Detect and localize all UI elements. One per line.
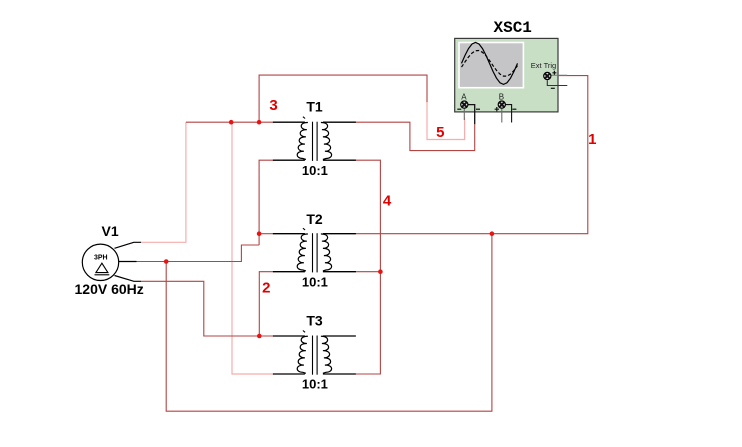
junction at V1 phase B and bottom rail branch [164, 259, 169, 264]
wire net 3: horizontal into T1 primary top pin [186, 121, 274, 123]
svg-text:T3: T3 [306, 313, 323, 329]
svg-text:10:1: 10:1 [302, 377, 328, 392]
wire net 1: V1 phase B down, bottom rail, up to T2 secondary top row [166, 234, 492, 412]
svg-text:T1: T1 [306, 99, 323, 115]
terminal B right stub [506, 105, 512, 123]
wire: T1 primary bottom down to T2 primary top [259, 160, 273, 245]
source V1 delta symbol [96, 263, 108, 272]
svg-text:5: 5 [436, 124, 444, 141]
scope screen frame [458, 42, 524, 89]
sine wave trace channel A [462, 42, 518, 84]
svg-text:T2: T2 [306, 211, 323, 227]
source V1 pin phase B [119, 261, 137, 263]
svg-text:B: B [499, 93, 504, 102]
terminal B [498, 101, 505, 108]
scope screen [460, 43, 523, 87]
svg-text:2: 2 [262, 280, 270, 297]
svg-text:10:1: 10:1 [302, 274, 328, 289]
svg-text:4: 4 [383, 193, 392, 210]
junction on net 4 at T2 secondary bottom [378, 269, 383, 274]
wire net 5: T1 secondary top to scope channel A minus [356, 122, 475, 150]
sign Ext Trig minus [551, 87, 555, 89]
source V1 delta underline [95, 274, 110, 276]
sign A right minus [476, 108, 480, 110]
svg-text:1: 1 [588, 131, 596, 148]
transformer T3 [273, 331, 356, 375]
oscilloscope XSC1 [455, 38, 568, 124]
svg-text:Ext Trig: Ext Trig [531, 61, 556, 70]
wire net 2: T3 primary top up to T2 primary bottom pin [259, 272, 273, 336]
sign A left minus [457, 108, 461, 110]
terminal A right stub [468, 105, 475, 125]
svg-text:120V 60Hz: 120V 60Hz [75, 281, 144, 297]
sign B plus [495, 107, 499, 111]
svg-text:10:1: 10:1 [302, 163, 328, 178]
source V1 pin phase A [115, 242, 142, 248]
sign Ext Trig plus [552, 71, 556, 75]
wire net 3: V1 phase A terminal right then up [141, 122, 186, 242]
junction on net 3 at T1 primary top and long vertical [229, 120, 234, 125]
svg-text:3PH: 3PH [94, 254, 108, 261]
junction on net 3 at T1 primary top and scope branch [257, 120, 262, 125]
terminal Ext Trig [544, 72, 551, 79]
wire net 3: down and right into scope channel A plus [427, 102, 465, 140]
wire net 3: up from T1 row and across to scope column [259, 75, 427, 122]
sign B minus [512, 108, 516, 110]
wire net 3: long vertical down to T3 primary bottom pin [232, 122, 273, 374]
transformer T1 [273, 117, 356, 161]
junction at T2 primary top [257, 231, 262, 236]
wire net 2: V1 phase C right, down, into T3 primary top pin [141, 281, 273, 336]
transformer T2 [273, 228, 356, 272]
Ext Trig L stub [547, 80, 567, 85]
wire: V1 phase B terminal to T2 primary top zigzag [137, 245, 260, 262]
wire: stub into T2 primary top pin [259, 233, 273, 235]
svg-text:XSC1: XSC1 [493, 19, 531, 37]
junction on net 2 at T3 primary top [257, 334, 262, 339]
svg-text:A: A [461, 93, 467, 102]
source V1 pin phase C [115, 276, 142, 282]
terminal B left stub [501, 108, 503, 122]
junction on net 1 at bottom rail branch [490, 231, 495, 236]
svg-text:3: 3 [269, 97, 277, 114]
wire net 1: T2 secondary top right then up to Ext Trig plus [356, 76, 588, 234]
sine wave trace channel B dashed [462, 51, 518, 77]
terminal A left stub [463, 108, 465, 120]
scope body [455, 38, 558, 112]
wire net 4: T2 secondary bottom connect [356, 271, 381, 273]
svg-text:V1: V1 [102, 223, 119, 239]
terminal A [461, 101, 468, 108]
Ext Trig right pin stub [551, 74, 567, 76]
wire net 4: T1 secondary bottom down to T3 secondary bottom [356, 160, 381, 374]
source V1 three-phase body circle [82, 244, 118, 280]
